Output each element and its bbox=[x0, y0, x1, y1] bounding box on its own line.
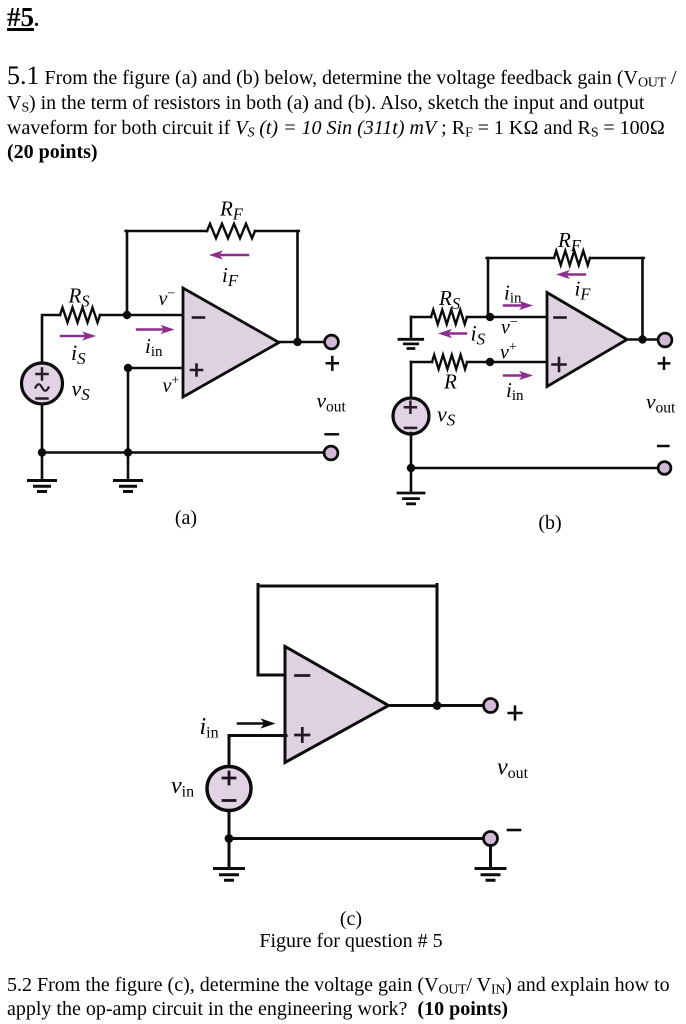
node: (a) noninverting input junction bbox=[124, 364, 132, 372]
wire: (a) output bbox=[279, 341, 325, 344]
wire: (b) feedback right vertical bbox=[641, 258, 644, 340]
node: (a) bottom rail middle bbox=[124, 448, 132, 456]
wire: (b) feedback top right segment bbox=[590, 257, 644, 260]
wire: (b) R to op-amp noninverting input bbox=[467, 361, 548, 364]
op-amp U1 (a) bbox=[183, 288, 279, 397]
current arrow iin (c) bbox=[238, 722, 263, 725]
current arrow iS (a) bbox=[61, 335, 85, 337]
svg-text:iS: iS bbox=[471, 321, 486, 349]
minus sign inside op-amp (c) bbox=[296, 674, 310, 677]
wire: (b) source to R bbox=[411, 361, 432, 364]
minus sign at (a) bottom terminal bbox=[326, 433, 338, 436]
wire: (c) stub to inverting input bbox=[258, 674, 286, 677]
svg-text:Figure for question # 5: Figure for question # 5 bbox=[259, 930, 442, 952]
svg-text:v−: v− bbox=[501, 315, 518, 339]
node: (b) output junction bbox=[638, 335, 646, 343]
svg-text:vout: vout bbox=[646, 390, 676, 417]
current arrow iF (b) bbox=[567, 273, 585, 275]
wire: (b) RS to op-amp inverting input bbox=[467, 316, 548, 319]
node: (c) bottom rail bbox=[225, 834, 234, 843]
current arrow iS (b) bbox=[449, 332, 466, 334]
wire: (a) vertical from noninverting node to ground rail bbox=[127, 368, 130, 453]
node: (a) output junction bbox=[293, 338, 301, 346]
svg-text:iF: iF bbox=[575, 277, 592, 304]
node: (a) inverting input junction bbox=[123, 311, 131, 319]
plus sign inside op-amp (b) bbox=[553, 358, 566, 371]
wire: (b) vertical from R down to source bbox=[410, 362, 413, 399]
svg-text:iin: iin bbox=[506, 378, 524, 404]
wire: (c) source bottom bbox=[228, 811, 231, 839]
current arrow iF (a) bbox=[221, 254, 248, 256]
source VS (a) bbox=[22, 363, 63, 404]
terminal: (a) output plus bbox=[325, 335, 339, 349]
minus sign inside op-amp (a) bbox=[193, 316, 204, 319]
op-amp U3 (c) bbox=[285, 647, 389, 763]
op-amp U2 (b) bbox=[547, 293, 627, 387]
svg-text:iS: iS bbox=[71, 340, 86, 368]
wire: (a) source top to RS bbox=[42, 315, 60, 362]
wire: (b) source bottom bbox=[410, 433, 413, 468]
resistor RS (b) bbox=[431, 310, 467, 324]
svg-text:vS: vS bbox=[72, 376, 91, 404]
terminal: (c) bottom minus bbox=[484, 832, 498, 846]
svg-text:RF: RF bbox=[219, 197, 244, 224]
node: (b) bottom rail bbox=[407, 464, 415, 472]
node: (a) bottom rail left bbox=[38, 448, 46, 456]
svg-text:iin: iin bbox=[200, 714, 219, 741]
wire: (a) feedback right vertical bbox=[296, 231, 299, 342]
svg-text:vout: vout bbox=[497, 755, 529, 782]
terminal: (c) output plus bbox=[484, 699, 498, 713]
wire: (c) bottom rail bbox=[229, 837, 484, 840]
wire: (c) noninverting input bbox=[229, 734, 286, 737]
svg-text:iin: iin bbox=[145, 334, 163, 360]
plus sign at (c) output bbox=[509, 707, 522, 720]
wire: (c) feedback top bbox=[258, 585, 437, 588]
wire: (a) feedback left vertical bbox=[126, 231, 129, 315]
wire: (a) RS to op-amp inverting input bbox=[100, 314, 184, 317]
svg-text:vin: vin bbox=[171, 773, 194, 800]
plus sign inside op-amp (a) bbox=[191, 365, 202, 376]
minus sign at (b) bottom terminal bbox=[658, 445, 668, 448]
wire: (a) bottom rail bbox=[42, 451, 325, 454]
current arrow iin top (b) bbox=[504, 304, 523, 306]
wire: (b) feedback left vertical bbox=[487, 258, 490, 317]
wire: (c) source top bbox=[228, 736, 231, 768]
wire: (a) feedback top right segment bbox=[255, 230, 299, 233]
resistor RF (a) bbox=[207, 224, 255, 238]
node: (b) noninverting input junction bbox=[486, 358, 494, 366]
ground (b) top left bbox=[410, 317, 413, 339]
plus sign inside op-amp (c) bbox=[296, 728, 310, 741]
plus sign at (a) output bbox=[327, 357, 338, 370]
svg-text:iin: iin bbox=[504, 281, 522, 307]
ground (c) below source bbox=[228, 839, 231, 869]
resistor RS (a) bbox=[60, 308, 100, 323]
ground (b) below source bbox=[410, 468, 413, 493]
svg-text:iF: iF bbox=[222, 263, 239, 290]
current arrow iin (a) bbox=[137, 328, 164, 330]
svg-text:(b): (b) bbox=[538, 512, 561, 534]
svg-text:v+: v+ bbox=[500, 340, 517, 364]
svg-text:v−: v− bbox=[159, 287, 176, 311]
svg-text:RF: RF bbox=[557, 228, 582, 255]
terminal: (a) bottom bbox=[324, 446, 338, 460]
svg-text:RS: RS bbox=[438, 286, 460, 313]
svg-text:vout: vout bbox=[317, 389, 347, 416]
svg-text:(a): (a) bbox=[175, 507, 197, 529]
wire: (a) feedback top left segment bbox=[126, 230, 207, 233]
wire: (b) output bbox=[627, 338, 658, 341]
wire: (c) feedback right vertical bbox=[436, 585, 439, 706]
wire: (b) feedback top left segment bbox=[487, 257, 554, 260]
source vin (c) bbox=[207, 767, 251, 811]
ground (a) below source bbox=[41, 453, 44, 481]
source VS (b) bbox=[393, 398, 429, 434]
terminal: (b) output plus bbox=[658, 333, 672, 347]
wire: (b) ground stub to RS bbox=[411, 316, 431, 319]
ground (c) below bottom terminal bbox=[489, 846, 492, 869]
svg-text:(c): (c) bbox=[340, 908, 362, 930]
svg-text:R: R bbox=[443, 370, 457, 394]
plus sign at (b) output bbox=[659, 358, 669, 369]
node: (c) output junction bbox=[433, 701, 442, 710]
wire: (a) source bottom bbox=[41, 404, 44, 453]
resistor R (b) bbox=[432, 355, 467, 369]
ground (a) below noninverting branch bbox=[127, 453, 130, 481]
terminal: (b) bottom bbox=[658, 462, 671, 475]
current arrow iin bottom (b) bbox=[504, 374, 523, 376]
wire: (c) output bbox=[389, 704, 484, 707]
node: (b) inverting input junction bbox=[486, 313, 494, 321]
minus sign inside op-amp (b) bbox=[555, 316, 566, 319]
wire: (c) feedback left vertical bbox=[257, 585, 260, 676]
wire: (b) bottom rail bbox=[411, 467, 658, 470]
svg-text:v+: v+ bbox=[163, 374, 180, 398]
svg-text:RS: RS bbox=[68, 284, 90, 311]
resistor RF (b) bbox=[554, 251, 590, 265]
wire: (a) noninverting input bbox=[128, 367, 184, 370]
minus sign at (c) bottom terminal bbox=[508, 829, 520, 832]
svg-text:vS: vS bbox=[437, 402, 456, 430]
